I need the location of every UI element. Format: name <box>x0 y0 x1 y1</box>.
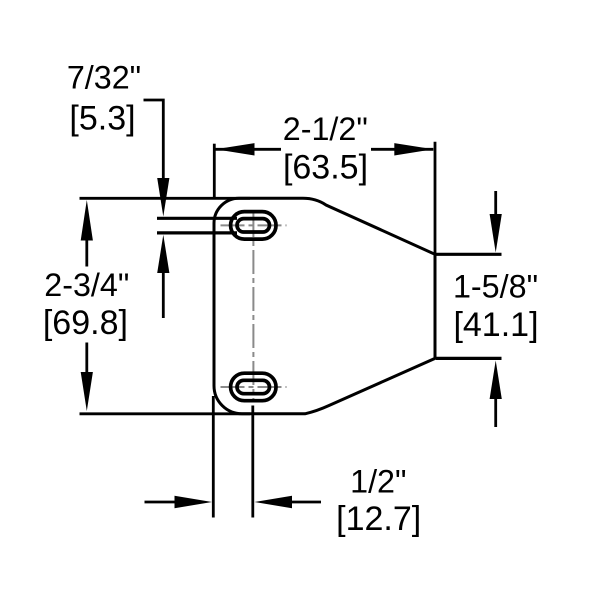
svg-text:1/2": 1/2" <box>350 463 406 499</box>
svg-text:[12.7]: [12.7] <box>336 500 421 538</box>
svg-text:2-3/4": 2-3/4" <box>44 267 129 303</box>
svg-text:[63.5]: [63.5] <box>283 149 368 187</box>
svg-text:2-1/2": 2-1/2" <box>283 111 368 147</box>
svg-text:7/32": 7/32" <box>67 60 141 96</box>
svg-text:[41.1]: [41.1] <box>453 306 538 344</box>
svg-text:[5.3]: [5.3] <box>69 100 135 138</box>
svg-text:[69.8]: [69.8] <box>43 304 128 342</box>
svg-text:1-5/8": 1-5/8" <box>453 269 538 305</box>
